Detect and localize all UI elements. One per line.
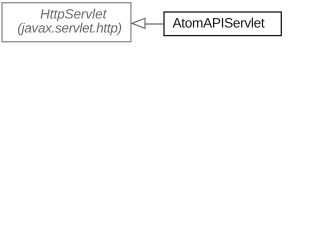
svg-text:HttpServlet: HttpServlet — [40, 7, 107, 22]
svg-text:AtomAPIServlet: AtomAPIServlet — [173, 16, 265, 31]
svg-text:(javax.servlet.http): (javax.servlet.http) — [17, 21, 122, 36]
